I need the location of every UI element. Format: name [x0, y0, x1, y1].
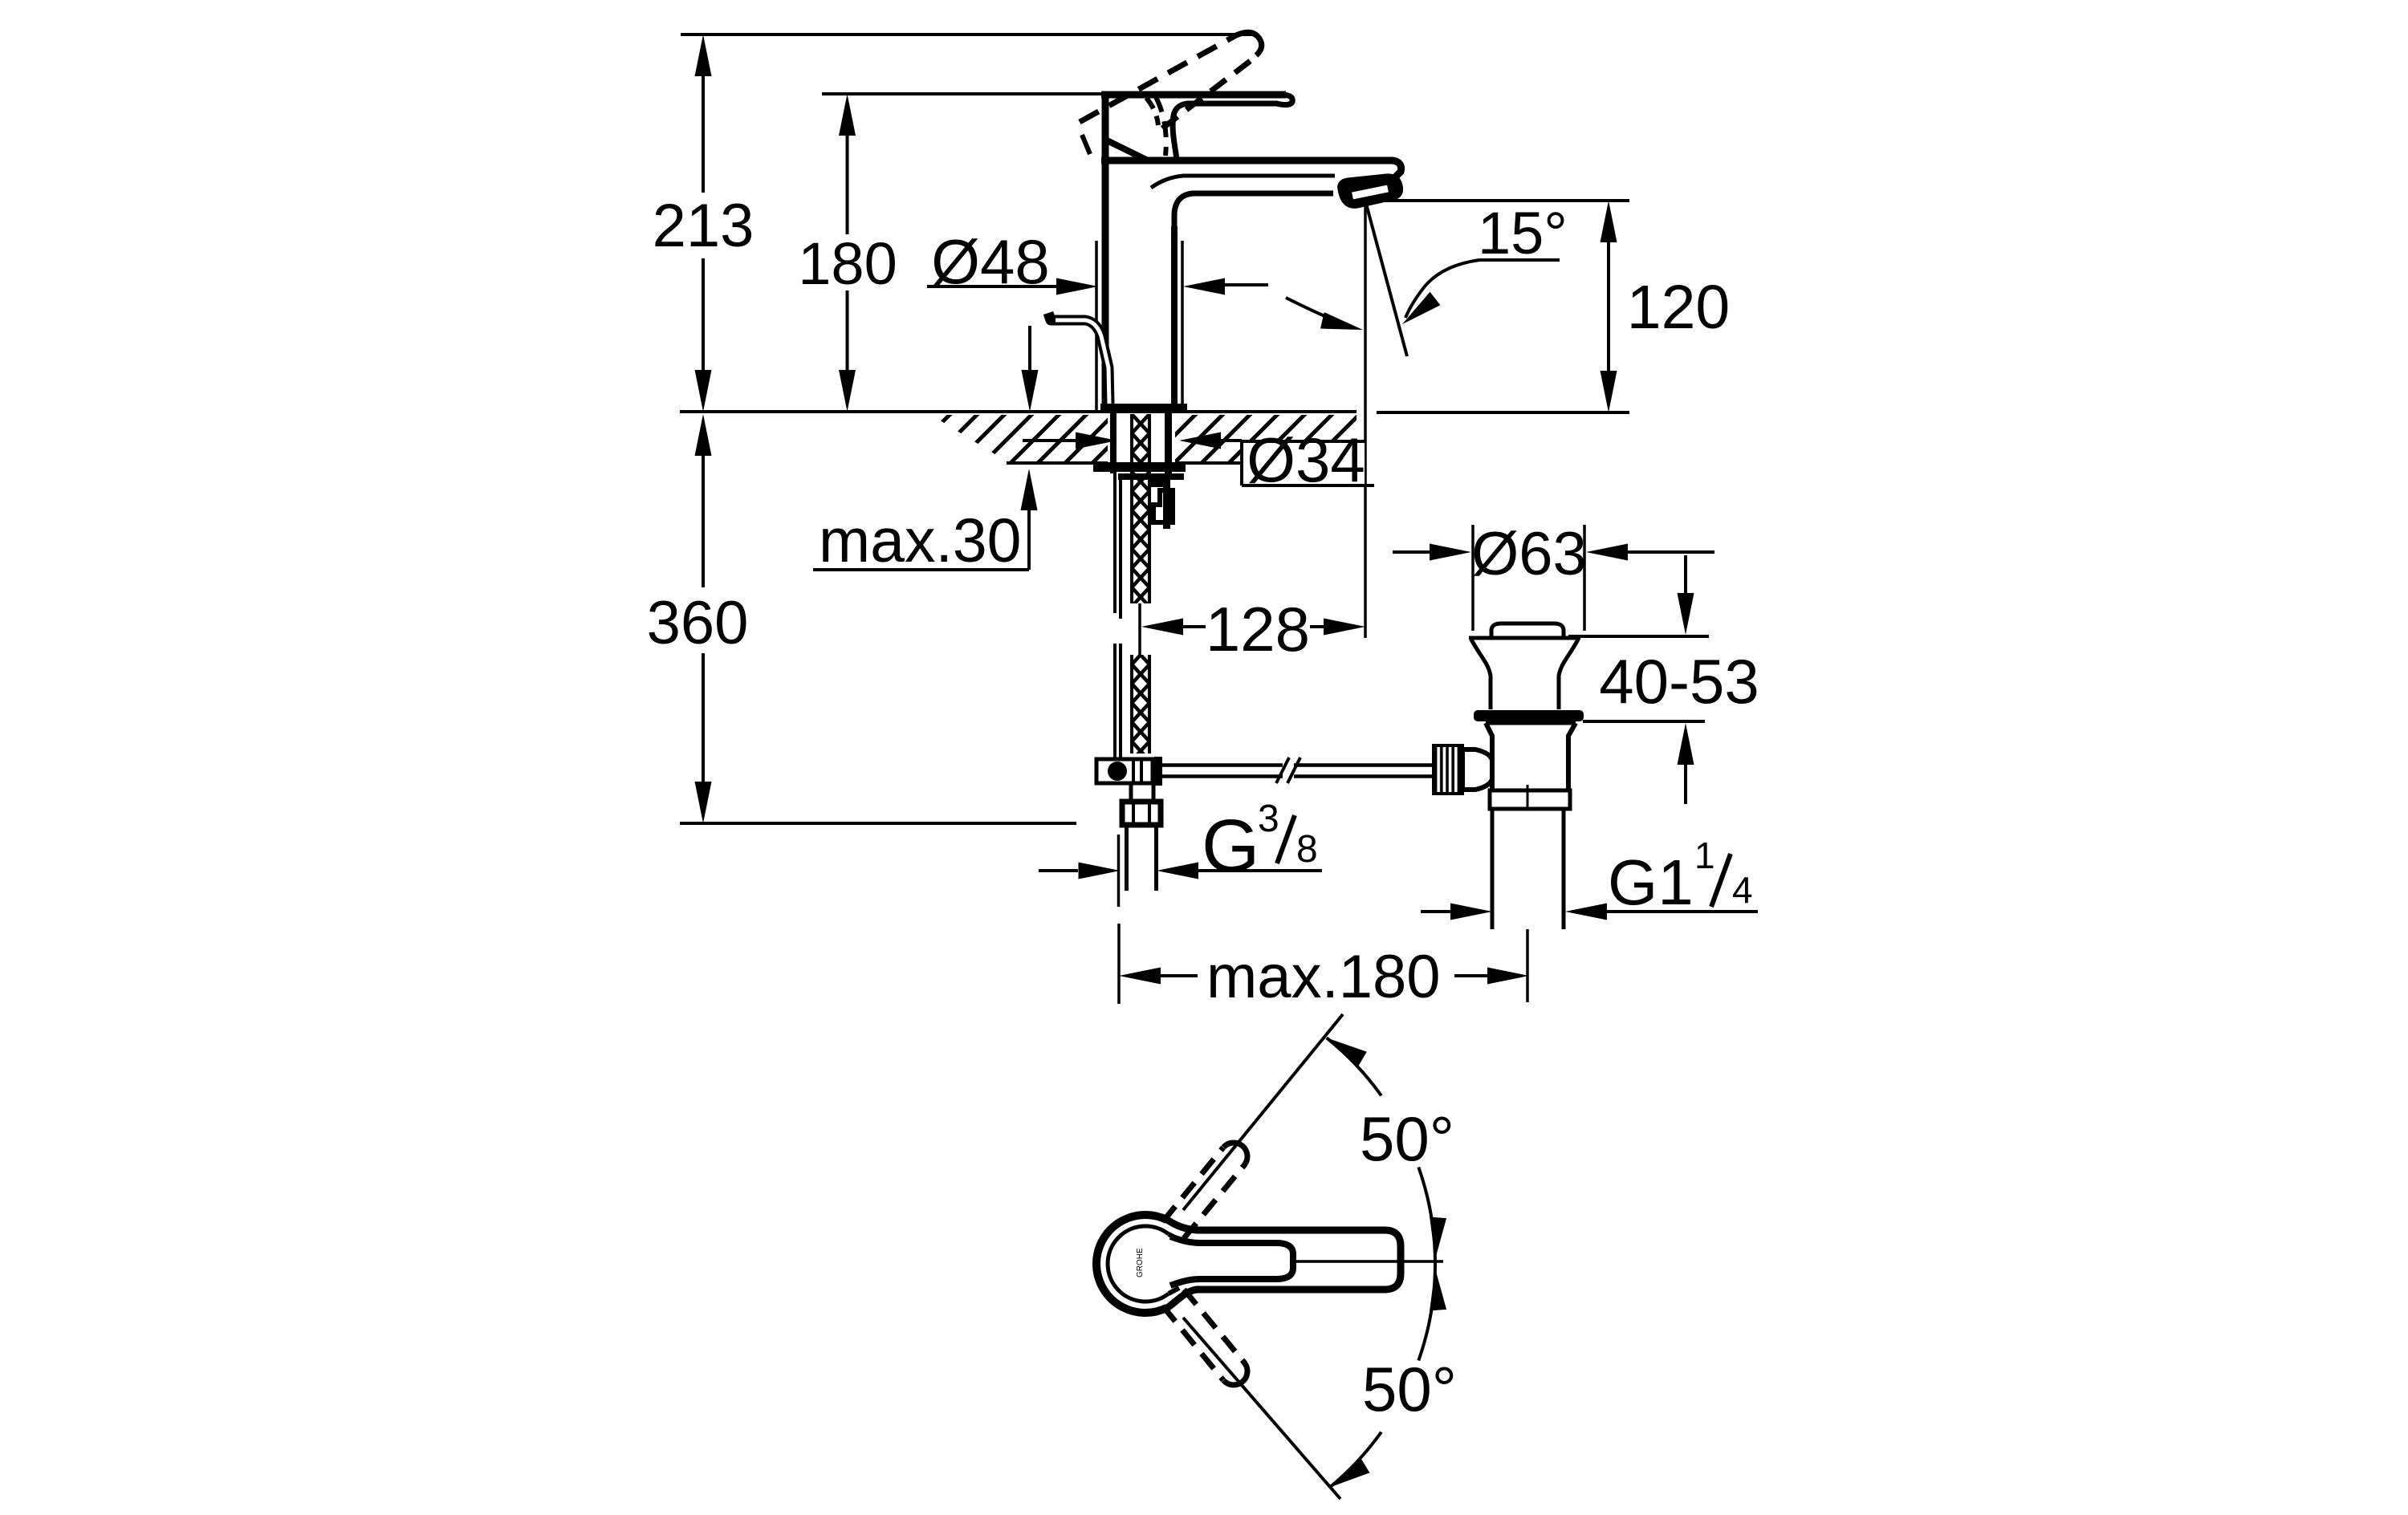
- dimension G1 1/4 line with arrows: [1421, 910, 1450, 913]
- svg-text:max.30: max.30: [819, 506, 1022, 575]
- threaded shank left wall: [1110, 412, 1117, 473]
- drain tail pipe: [1491, 809, 1495, 929]
- handle lever underside: [1186, 101, 1278, 107]
- handle raised position tip cap: [1236, 32, 1262, 55]
- top view neck junction tick upper: [1169, 1234, 1179, 1240]
- faucet top cap line: [1101, 91, 1286, 99]
- supply hose braid upper segment: [1132, 414, 1149, 603]
- svg-text:8: 8: [1296, 828, 1318, 871]
- top view handle inner slot: [1170, 1237, 1293, 1286]
- aerator / mousseur outlet: [1340, 176, 1401, 206]
- handle lever to base S-curve and base right edge: [1173, 104, 1188, 160]
- handle base diagonal edge: [1105, 140, 1148, 160]
- svg-text:128: 128: [1206, 594, 1310, 664]
- drain push cap: [1491, 623, 1564, 636]
- extension line Ø63 left: [1471, 525, 1474, 631]
- svg-text:120: 120: [1627, 273, 1730, 342]
- drain knurled adjuster knob: [1434, 745, 1462, 794]
- pop-up actuating rod right segment: [1294, 763, 1434, 767]
- drain flange left profile: [1471, 640, 1491, 709]
- top view centre line: [1293, 1260, 1443, 1263]
- upper 50 deg construction line: [1183, 1014, 1343, 1210]
- extension line for max.180 left: [1117, 924, 1121, 1004]
- max.30 label leader with arrow: [1027, 510, 1031, 570]
- top view handle bar outline: [1196, 1230, 1401, 1290]
- counter bottom surface line: [1007, 461, 1243, 465]
- dimension G3/8 arrows: [1039, 869, 1078, 872]
- deck level extension line: [680, 410, 1357, 413]
- top view cartridge inner circle: [1108, 1226, 1169, 1302]
- faucet base plate: [1100, 404, 1187, 412]
- handle raised position dashed inner arc: [1146, 98, 1158, 125]
- dimension 180 top reference line: [822, 92, 1101, 95]
- lower 50 deg construction line: [1183, 1318, 1340, 1499]
- handle raised dashed base corner tick: [1082, 135, 1090, 154]
- 15 deg label leader arc with arrow: [1405, 260, 1479, 318]
- top view neck junction tick lower: [1169, 1288, 1179, 1294]
- rod break marks: [1276, 757, 1289, 783]
- dimension Ø63 line with arrows: [1393, 550, 1430, 554]
- handle swivel lower position dashed bar: [1163, 1306, 1223, 1380]
- mounting nut bar: [1118, 473, 1184, 480]
- pop-up actuating rod upper line: [1161, 763, 1283, 767]
- dimension 213 top reference line: [681, 33, 1255, 36]
- handle swivel upper position dashed bar: [1163, 1147, 1223, 1221]
- deck top-surface pointer arrow (max.30 upper reference): [1028, 326, 1031, 372]
- drain flange right profile: [1559, 640, 1578, 709]
- svg-text:G1: G1: [1608, 847, 1694, 918]
- drain centre line below pipe: [1526, 929, 1529, 1002]
- drain rubber washer: [1474, 710, 1584, 721]
- handle raised position dashed front arc: [1156, 97, 1166, 156]
- faucet centre axis line (128 reference): [1138, 603, 1141, 655]
- shank fitting hook: [1153, 490, 1173, 522]
- top view handle neck lower edge: [1167, 1290, 1198, 1308]
- dimension 40-53 bottom reference line: [1583, 720, 1705, 723]
- shank fitting block: [1151, 479, 1169, 487]
- dimension 360 vertical line with arrows: [702, 456, 705, 587]
- stream swivel arc with arrow: [1286, 298, 1353, 327]
- pull rod below deck lower segment: [1113, 644, 1117, 759]
- supply connection upper nut: [1131, 783, 1153, 802]
- upper 50 deg dimension arc tail: [1327, 1038, 1381, 1095]
- counter top surface line: [913, 410, 1357, 413]
- central dimension arc with bowtie arrows: [1418, 1168, 1435, 1361]
- dimension 180 vertical line with arrows: [846, 136, 849, 234]
- extension line Ø48 left: [1095, 241, 1098, 410]
- dimension 213 vertical line with arrows: [702, 76, 705, 193]
- handle lever tip curl: [1276, 95, 1292, 105]
- svg-text:213: 213: [653, 192, 755, 260]
- G3/8 connection nut: [1122, 802, 1161, 825]
- mask for mounting shank zone: [1108, 414, 1175, 462]
- svg-text:40-53: 40-53: [1599, 646, 1759, 717]
- svg-text:50°: 50°: [1362, 1354, 1457, 1424]
- handle swivel upper bar tip cap: [1223, 1143, 1247, 1164]
- lower 50 deg dimension arc tail: [1330, 1432, 1381, 1488]
- svg-text:Ø63: Ø63: [1471, 520, 1587, 588]
- handle swivel lower bar tip cap: [1223, 1363, 1247, 1385]
- svg-text:360: 360: [647, 589, 749, 657]
- drain centre line upper segment: [1527, 785, 1529, 810]
- drain body below washer: [1486, 723, 1492, 790]
- mounting flange washer under deck: [1093, 463, 1186, 472]
- dimension 40-53 arrows: [1684, 555, 1687, 593]
- svg-text:15°: 15°: [1478, 200, 1568, 266]
- extension line Ø48 right: [1181, 241, 1184, 410]
- drain flange top line: [1469, 636, 1580, 640]
- dimension 128 line with arrows: [1141, 619, 1183, 636]
- extension line Ø63 right: [1583, 525, 1586, 631]
- dimension 120 vertical line with arrows: [1607, 242, 1610, 371]
- svg-text:G: G: [1202, 804, 1259, 887]
- drain knob shaft: [1462, 749, 1492, 790]
- top view handle neck upper edge: [1167, 1220, 1198, 1230]
- spout underside line with inner corner: [1174, 193, 1333, 228]
- top view escutcheon outer circle: [1096, 1215, 1167, 1313]
- label 15 deg underline: [1479, 258, 1560, 262]
- faucet body inner right edge: [1171, 226, 1178, 408]
- extension line for G3/8 dimension: [1117, 835, 1121, 907]
- dimension Ø48 line and arrows: [927, 285, 1058, 288]
- pop-up rod pivot mechanism: [1096, 759, 1153, 783]
- pop-up actuating rod lower line: [1161, 774, 1283, 778]
- handle raised position dashed lower line: [1162, 55, 1259, 128]
- drain pull rod behind faucet: [1048, 313, 1109, 404]
- spout top heavy line with front corner: [1101, 160, 1401, 183]
- svg-text:Ø34: Ø34: [1247, 424, 1365, 495]
- svg-text:180: 180: [798, 230, 897, 297]
- spout outlet height reference line (120 top): [1377, 199, 1629, 202]
- drain body lower ring: [1490, 790, 1570, 809]
- counter slab hatching: [931, 415, 1357, 461]
- svg-text:50°: 50°: [1360, 1103, 1454, 1174]
- dimension 360 bottom reference line: [680, 822, 1076, 825]
- svg-text:3: 3: [1258, 798, 1279, 840]
- threaded shank right wall: [1165, 412, 1172, 479]
- pull rod below deck upper segment: [1113, 473, 1117, 613]
- outlet vertical extension line: [1364, 205, 1367, 638]
- svg-text:4: 4: [1732, 869, 1753, 911]
- faucet body left edge: [1102, 91, 1109, 408]
- 15 deg slanted stream line: [1366, 204, 1407, 356]
- dimension max.180 line with arrows: [1119, 968, 1161, 985]
- dimension Ø34 arrows: [1023, 439, 1076, 442]
- supply hose braid lower segment: [1132, 655, 1149, 753]
- svg-text:Ø48: Ø48: [931, 226, 1049, 297]
- dimension 120 bottom reference line (deck level): [1377, 411, 1629, 414]
- supply hose tail to G3/8: [1125, 825, 1129, 891]
- svg-text:max.180: max.180: [1206, 943, 1441, 1011]
- label Ø34 box: [1242, 441, 1365, 485]
- dimension 40-53 top reference line: [1568, 635, 1709, 638]
- svg-text:GROHE: GROHE: [1136, 1248, 1145, 1277]
- svg-text:1: 1: [1694, 835, 1715, 876]
- handle raised position dashed upper line: [1080, 35, 1236, 122]
- spout face lower edge with cheek curve: [1151, 176, 1335, 188]
